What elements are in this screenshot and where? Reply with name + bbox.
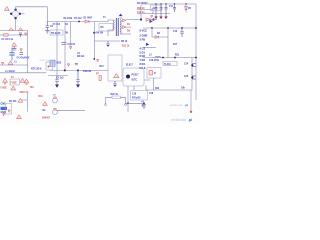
svg-text:R2 150k: R2 150k xyxy=(64,18,73,20)
step wire xyxy=(0,65,46,73)
capacitor C17 xyxy=(142,103,145,109)
ground arrow 1 xyxy=(55,85,59,88)
svg-text:2 GND: 2 GND xyxy=(140,34,148,38)
svg-text:R22: R22 xyxy=(155,88,160,90)
wire short xyxy=(48,75,68,77)
svg-text:PC817: PC817 xyxy=(132,75,140,77)
rail 28 xyxy=(143,27,196,29)
warning triangle h xyxy=(43,102,48,106)
warning live triangle xyxy=(3,78,8,84)
wire bottom tp xyxy=(57,110,85,112)
wire out xyxy=(126,102,145,104)
transformer T1 core xyxy=(116,18,118,36)
snubber box xyxy=(99,24,113,32)
wire bridge right stub xyxy=(20,13,25,15)
box C16 xyxy=(131,91,148,101)
net flag above transformer xyxy=(119,14,123,17)
svg-text:R8 10: R8 10 xyxy=(121,41,128,43)
cap bottom rail xyxy=(152,13,170,15)
svg-text:+V: +V xyxy=(141,102,144,104)
svg-text:elektroda: elektroda xyxy=(170,103,183,107)
main low wire xyxy=(50,69,108,71)
svg-text:4 CS: 4 CS xyxy=(140,47,146,51)
red part inside xyxy=(149,71,153,76)
diode D6 xyxy=(152,36,168,39)
svg-text:R5 47k: R5 47k xyxy=(9,100,17,103)
svg-text:R6 1M: R6 1M xyxy=(96,33,103,35)
svg-text:D1 4007: D1 4007 xyxy=(84,17,93,20)
svg-text:C14: C14 xyxy=(184,63,189,66)
wire secondary bottom xyxy=(121,33,132,35)
svg-text:T2A: T2A xyxy=(30,86,35,89)
capacitor C3 xyxy=(20,53,24,55)
capacitor C9 xyxy=(160,4,163,14)
wire bridge top rail xyxy=(16,7,48,22)
optocoupler U2 box xyxy=(123,68,144,86)
capacitor C11 xyxy=(173,4,176,12)
svg-text:.pl: .pl xyxy=(188,118,192,122)
ground arrow 2 xyxy=(76,85,80,88)
capacitor CY1 xyxy=(55,77,59,85)
net arrow 2 xyxy=(146,43,149,46)
AC line 2 xyxy=(0,34,28,36)
svg-text:1N4148: 1N4148 xyxy=(83,70,92,73)
terminal 1 xyxy=(105,104,107,106)
svg-text:1N4007: 1N4007 xyxy=(42,116,51,119)
warning triangle g xyxy=(17,115,22,119)
svg-text:C13 1n: C13 1n xyxy=(137,12,145,14)
rectifier diode D3 xyxy=(146,18,150,21)
ground below IC xyxy=(113,81,117,87)
capacitor C8 xyxy=(155,4,158,14)
ground triangle 1 xyxy=(154,14,157,20)
transformer T1 primary winding xyxy=(112,20,115,30)
red mark on bus xyxy=(69,47,71,50)
wire opto right xyxy=(144,79,150,81)
svg-text:C15: C15 xyxy=(184,76,189,78)
svg-text:7 D3: 7 D3 xyxy=(140,58,146,62)
svg-text:R20 1k: R20 1k xyxy=(111,94,119,96)
riser to top rail xyxy=(140,5,142,20)
svg-text:R10: R10 xyxy=(39,96,44,98)
svg-text:RC: RC xyxy=(101,27,105,29)
svg-text:817C: 817C xyxy=(132,80,138,82)
wire opto bottom 2 xyxy=(133,86,135,90)
fuse box F1 xyxy=(10,79,20,85)
ground chassis xyxy=(12,46,16,50)
svg-text:C1 X2 0.1u: C1 X2 0.1u xyxy=(2,39,14,41)
wire secondary top xyxy=(126,19,141,21)
red mark xyxy=(97,60,99,62)
capacitor C12 xyxy=(180,28,184,37)
svg-text:FUSE: FUSE xyxy=(1,87,8,89)
terminal 2 xyxy=(125,104,127,106)
svg-text:BD3: BD3 xyxy=(57,63,62,65)
wire T1 xyxy=(21,93,27,112)
rail dots xyxy=(155,3,156,4)
drain end dot xyxy=(93,58,95,60)
diode D1 on rail xyxy=(85,20,89,23)
svg-text:C4 47u400V: C4 47u400V xyxy=(17,57,30,60)
capacitor C10 xyxy=(165,4,168,14)
net arrow right1 xyxy=(150,20,153,23)
svg-text:R19 10: R19 10 xyxy=(137,8,145,10)
ground triangle 2 xyxy=(159,14,162,20)
red mark xyxy=(25,33,27,35)
secondary diode D5 xyxy=(123,26,127,29)
secondary top rail xyxy=(141,3,196,5)
IC U3 box xyxy=(108,55,122,81)
output wire xyxy=(146,58,192,91)
bridge rectifier B1 xyxy=(10,8,21,19)
svg-text:R12: R12 xyxy=(100,66,105,68)
capacitor C5 cap to gnd at x47 xyxy=(45,22,49,34)
warning triangle e xyxy=(11,86,16,90)
svg-text:C5 104: C5 104 xyxy=(53,23,61,26)
varistor RV2 xyxy=(18,28,23,31)
capacitor C2 on bus xyxy=(62,43,67,45)
svg-text:470u/25: 470u/25 xyxy=(132,97,141,100)
varistor RV1 xyxy=(9,28,14,31)
svg-text:TL431: TL431 xyxy=(164,63,171,66)
svg-text:R17: R17 xyxy=(173,44,178,46)
red comp xyxy=(67,64,69,67)
wire opto bottom 1 xyxy=(127,86,129,112)
transformer T1 secondary winding xyxy=(119,20,122,34)
gate wire xyxy=(94,40,120,42)
svg-text:L1 10mH: L1 10mH xyxy=(5,71,15,73)
capacitor CY2 xyxy=(76,70,80,84)
svg-text:R11 1k: R11 1k xyxy=(122,46,130,48)
svg-text:EL817: EL817 xyxy=(126,65,133,67)
secondary diode D4 xyxy=(123,19,127,22)
red symbol on wire xyxy=(8,61,13,65)
svg-text:C12: C12 xyxy=(173,31,178,33)
svg-text:5 D1: 5 D1 xyxy=(140,51,146,55)
test point circle 2 xyxy=(53,108,58,114)
warning triangle opto xyxy=(114,74,120,78)
warning triangle d xyxy=(24,79,29,85)
diode D5 vertical xyxy=(185,4,188,13)
svg-text:GND: GND xyxy=(1,112,6,114)
right rail capacitor C15 xyxy=(191,76,196,79)
svg-text:elektroda: elektroda xyxy=(40,58,53,62)
ground drop xyxy=(106,41,110,47)
divider box B3 xyxy=(147,68,161,79)
vertical wires bus xyxy=(56,22,58,78)
junction dot drain node xyxy=(93,32,95,34)
test point circle 1 xyxy=(53,95,58,103)
red bits xyxy=(8,110,10,112)
svg-text:C19 470u: C19 470u xyxy=(149,59,160,62)
selection label xyxy=(1,107,8,110)
wire x168 down xyxy=(167,28,169,58)
net label box +12V xyxy=(151,5,162,11)
red mark xyxy=(20,49,22,51)
svg-text:8 VCC: 8 VCC xyxy=(140,29,148,33)
right rail capacitor C14 xyxy=(191,64,196,67)
svg-text:3 FB: 3 FB xyxy=(140,38,146,42)
capacitor CX1 xyxy=(19,33,22,37)
wire secondary mid xyxy=(126,26,131,28)
inrush component xyxy=(46,62,53,70)
svg-text:elektroda: elektroda xyxy=(171,118,186,122)
AC line 1 xyxy=(0,30,28,32)
wire from divider down xyxy=(153,78,155,90)
boxed label TR1 xyxy=(50,30,63,35)
wire primary bottom xyxy=(108,30,114,36)
wire bridge bottom xyxy=(15,18,17,30)
warning triangle c xyxy=(20,78,25,82)
snubber wire r1 xyxy=(137,10,153,14)
svg-text:FUSE: FUSE xyxy=(11,83,18,85)
svg-text:C11: C11 xyxy=(169,6,174,8)
wire rail to primary xyxy=(99,20,114,22)
red mark left xyxy=(2,62,4,64)
svg-text:.pl: .pl xyxy=(185,103,189,107)
inductor L2 on rail xyxy=(155,56,161,57)
warning triangle mid xyxy=(12,43,17,47)
snubber wire r2 xyxy=(137,13,153,15)
cap bars xyxy=(75,63,78,64)
lower AC wire xyxy=(0,64,28,66)
bulk capacitor C4 xyxy=(9,48,14,61)
svg-text:C18: C18 xyxy=(149,93,154,95)
rail 57 xyxy=(143,57,196,59)
resistor R20 xyxy=(106,96,126,104)
svg-text:DK112: DK112 xyxy=(77,56,85,58)
warning triangle TR xyxy=(4,7,9,11)
svg-text:R21: R21 xyxy=(175,55,180,57)
svg-text:C6 2n2: C6 2n2 xyxy=(74,18,82,20)
blue connector xyxy=(50,60,55,66)
right rail xyxy=(195,4,197,100)
wire drain vertical xyxy=(93,22,95,60)
svg-text:TR EE25: TR EE25 xyxy=(51,33,61,35)
opto LED blob xyxy=(126,75,130,79)
svg-text:8 D4: 8 D4 xyxy=(140,62,146,66)
wire feedback xyxy=(143,47,156,49)
red comp R7 xyxy=(96,74,101,81)
warning triangle f xyxy=(18,98,23,102)
boxed label TL431 xyxy=(163,62,177,66)
svg-text:NTC 5D-9: NTC 5D-9 xyxy=(31,69,42,71)
component box xyxy=(6,104,12,115)
resistor R1 xyxy=(4,34,9,36)
wire left vertical xyxy=(27,31,29,66)
output node dot xyxy=(190,111,192,113)
junction dot xyxy=(127,102,129,104)
ground triangle 3 xyxy=(164,14,167,20)
junction node xyxy=(78,21,80,23)
svg-text:C2 104: C2 104 xyxy=(68,43,76,46)
svg-text:C16: C16 xyxy=(132,94,137,96)
main DC rail xyxy=(47,21,99,23)
